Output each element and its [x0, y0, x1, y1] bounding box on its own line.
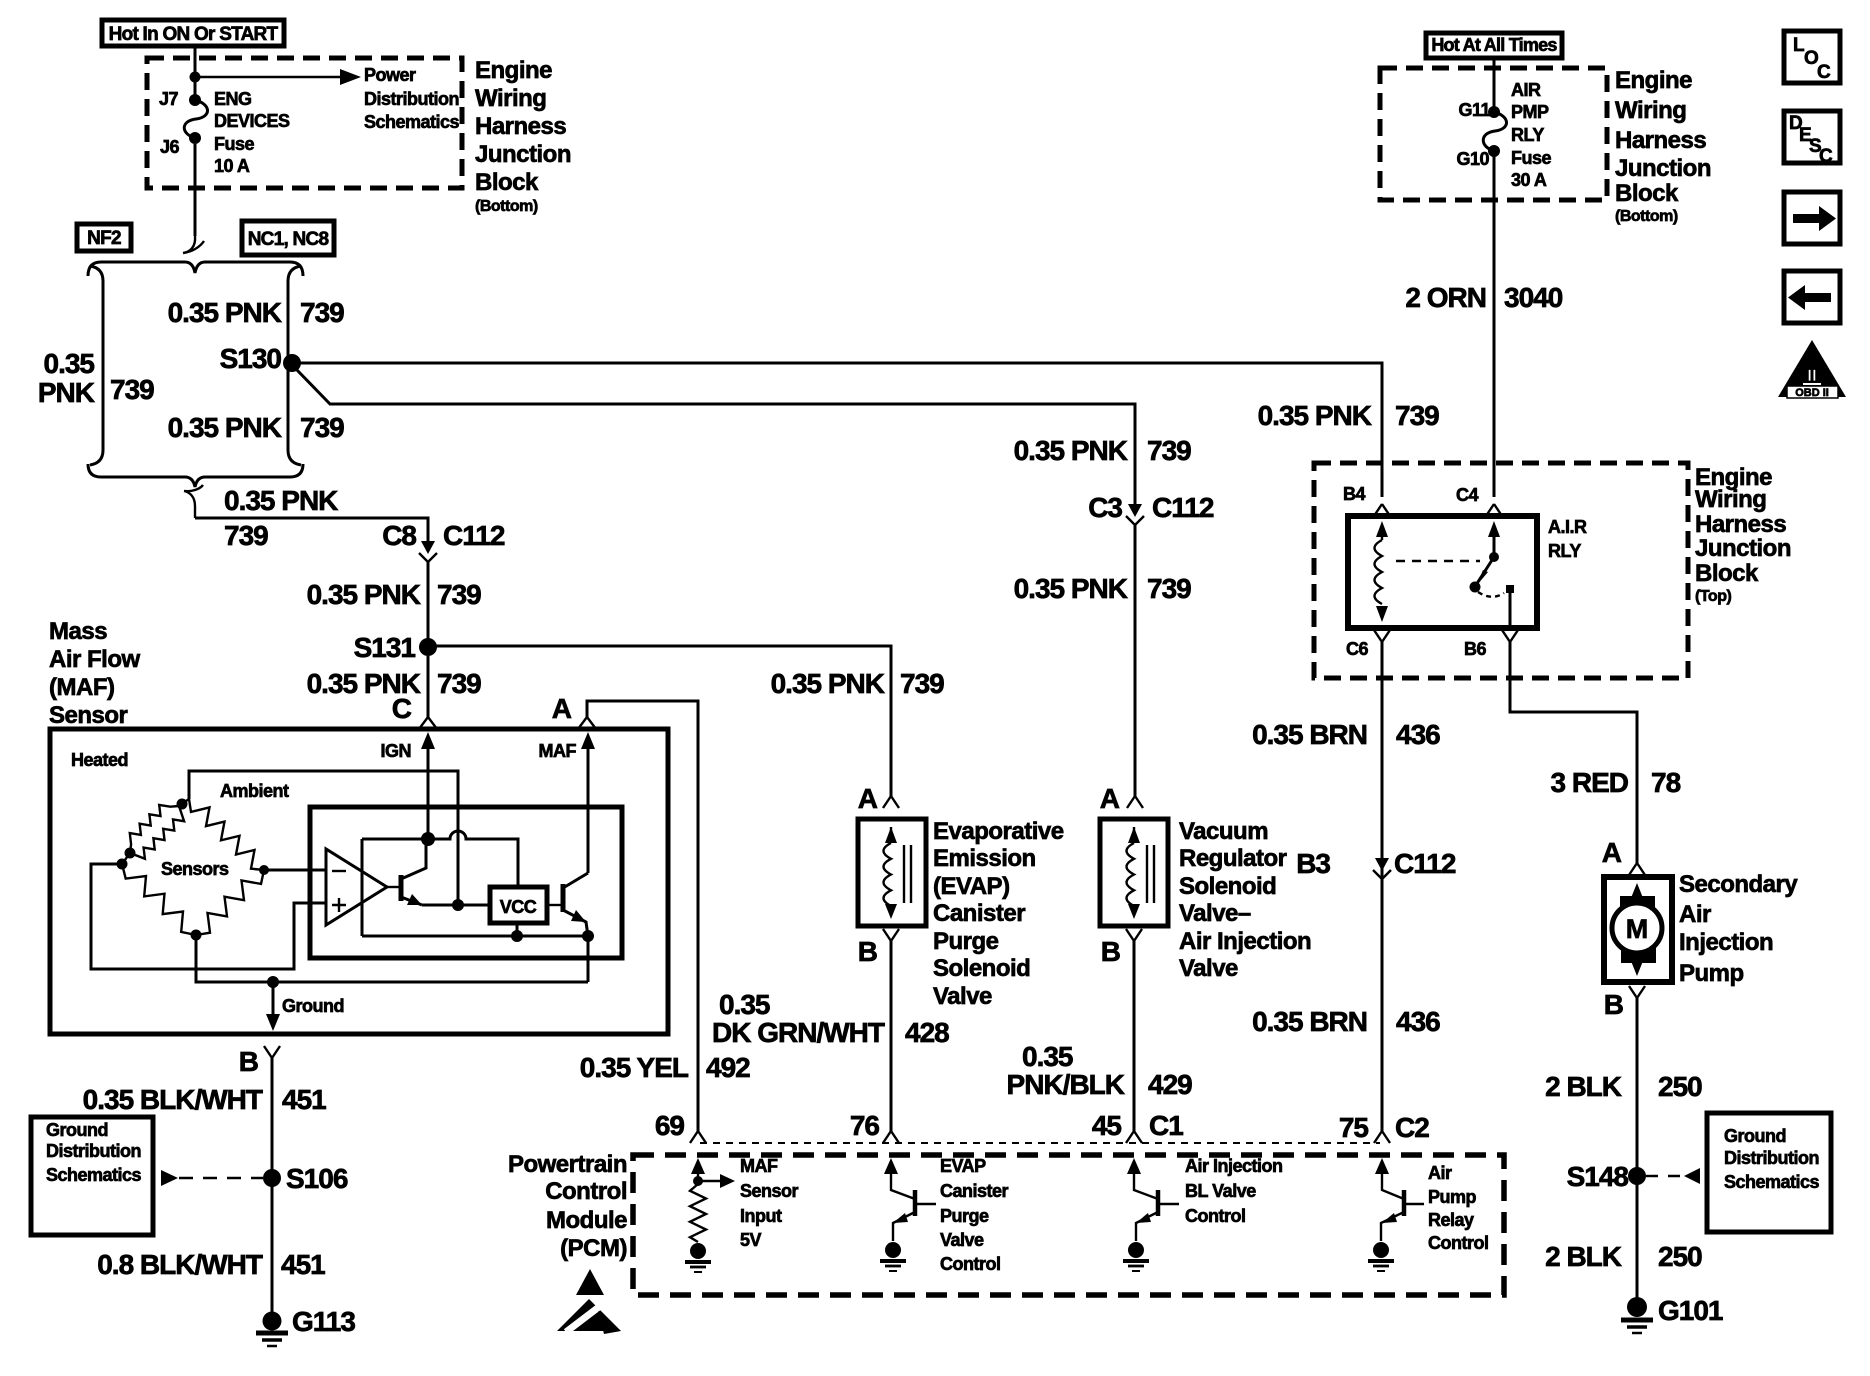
- wire arrow to Power Distribution Schematics: [195, 69, 361, 85]
- component label Mass Air Flow (MAF) Sensor: [49, 618, 140, 729]
- label Air Pump Relay Control: [1428, 1163, 1488, 1253]
- feedback left drop wire: [361, 839, 364, 936]
- svg-text:Fuse: Fuse: [214, 134, 255, 154]
- node: bridge right vertex: [259, 865, 269, 875]
- bridge heated resistor pair upper-left (outer): [130, 799, 189, 853]
- svg-text:Distribution: Distribution: [1724, 1148, 1819, 1168]
- PCM internal ground (pin 75 circuit): [1368, 1242, 1394, 1271]
- svg-text:Emission: Emission: [933, 845, 1036, 872]
- label Engine Wiring Harness Junction Block (Top): [1695, 464, 1791, 605]
- net tag NF2: [77, 224, 131, 251]
- svg-text:C112: C112: [1152, 492, 1214, 523]
- svg-text:0.35: 0.35: [1022, 1041, 1073, 1072]
- svg-text:Valve: Valve: [940, 1230, 984, 1250]
- margin icon OBD II triangle: [1778, 340, 1846, 399]
- margin icon DESC: [1784, 111, 1840, 167]
- svg-text:45: 45: [1092, 1110, 1122, 1141]
- svg-text:OBD II: OBD II: [1795, 387, 1829, 399]
- svg-text:G10: G10: [1456, 149, 1489, 169]
- wire MAF pin B to G113 (451): [271, 1058, 274, 1312]
- wire label 0.35 PNK 739: [307, 579, 482, 610]
- svg-text:II: II: [1807, 366, 1816, 385]
- svg-text:0.35: 0.35: [719, 989, 770, 1020]
- svg-text:Air Flow: Air Flow: [49, 646, 140, 673]
- svg-text:Sensors: Sensors: [161, 859, 229, 879]
- pin A of secondary air injection pump: [1602, 837, 1645, 875]
- svg-text:Engine: Engine: [475, 57, 552, 84]
- svg-text:B: B: [858, 936, 877, 967]
- svg-text:75: 75: [1339, 1112, 1369, 1143]
- bundle bracket left: [90, 266, 103, 465]
- svg-text:DK GRN/WHT: DK GRN/WHT: [712, 1017, 885, 1048]
- svg-text:S148: S148: [1567, 1161, 1629, 1192]
- svg-text:0.8 BLK/WHT: 0.8 BLK/WHT: [97, 1249, 263, 1280]
- svg-text:30 A: 30 A: [1511, 170, 1547, 190]
- pin 75 C2 label: [1339, 1112, 1429, 1143]
- svg-text:Junction: Junction: [1615, 155, 1711, 182]
- component label Powertrain Control Module (PCM): [508, 1151, 627, 1262]
- wire MAF pin A to PCM pin 69 (0.35 YEL 492): [587, 701, 698, 1131]
- wire from J6 down to bundle hook: [194, 144, 197, 236]
- ground G101: [1621, 1295, 1723, 1333]
- svg-text:A: A: [1602, 837, 1622, 868]
- svg-text:(Bottom): (Bottom): [1615, 208, 1678, 225]
- svg-text:429: 429: [1148, 1069, 1192, 1100]
- svg-text:739: 739: [1147, 435, 1191, 466]
- svg-text:Secondary: Secondary: [1679, 871, 1798, 898]
- svg-text:Control: Control: [545, 1178, 627, 1205]
- svg-text:C2: C2: [1395, 1112, 1429, 1143]
- svg-text:Harness: Harness: [1615, 127, 1706, 154]
- svg-text:B: B: [239, 1046, 258, 1077]
- svg-text:S130: S130: [220, 343, 282, 374]
- svg-text:Engine: Engine: [1615, 67, 1692, 94]
- svg-text:Canister: Canister: [933, 900, 1025, 927]
- wire vacuum pin B to PCM pin 45 (429): [1133, 941, 1136, 1131]
- node: bridge heated mid junction: [125, 848, 136, 859]
- component label Secondary Air Injection Pump: [1679, 871, 1798, 987]
- svg-text:C4: C4: [1456, 485, 1478, 505]
- wire pump pin B to G101 (2 BLK 250): [1636, 998, 1639, 1298]
- svg-text:C8: C8: [382, 520, 416, 551]
- node J6: [160, 132, 201, 157]
- svg-text:NC1, NC8: NC1, NC8: [248, 229, 329, 250]
- wire label 0.35 PNK/BLK 429: [1007, 1041, 1193, 1100]
- svg-text:739: 739: [300, 297, 344, 328]
- svg-text:Hot At All Times: Hot At All Times: [1431, 35, 1557, 55]
- svg-text:PMP: PMP: [1511, 102, 1549, 122]
- wire S130 to A.I.R relay B4: [292, 363, 1382, 497]
- svg-text:0.35 BLK/WHT: 0.35 BLK/WHT: [83, 1084, 263, 1115]
- node tap dot: [190, 72, 201, 83]
- svg-text:C: C: [1819, 146, 1833, 167]
- svg-text:C112: C112: [443, 520, 505, 551]
- svg-text:A: A: [858, 783, 878, 814]
- label Engine Wiring Harness Junction Block (Bottom) right: [1615, 67, 1711, 225]
- svg-text:PNK/BLK: PNK/BLK: [1007, 1069, 1125, 1100]
- bundle bracket right: [288, 266, 301, 465]
- svg-text:Ground: Ground: [282, 996, 344, 1016]
- svg-text:Fuse: Fuse: [1511, 148, 1552, 168]
- svg-text:G11: G11: [1458, 100, 1490, 120]
- fuse value label ENG DEVICES Fuse 10 A: [214, 89, 290, 176]
- label EVAP Canister Purge Valve Control: [940, 1156, 1009, 1274]
- svg-text:0.35 BRN: 0.35 BRN: [1252, 1006, 1367, 1037]
- svg-text:Air: Air: [1679, 901, 1711, 928]
- node: bridge bottom vertex: [191, 930, 202, 941]
- svg-text:10 A: 10 A: [214, 156, 250, 176]
- svg-text:0.35 PNK: 0.35 PNK: [1014, 573, 1128, 604]
- transistor Q2: [547, 873, 588, 936]
- svg-text:0.35 PNK: 0.35 PNK: [224, 485, 338, 516]
- svg-text:Evaporative: Evaporative: [933, 818, 1064, 845]
- wire S130 to connector C3 (vacuum regulator branch): [296, 369, 1135, 504]
- pin 69 label: [655, 1110, 706, 1143]
- svg-text:C: C: [392, 693, 412, 724]
- svg-text:250: 250: [1658, 1241, 1702, 1272]
- svg-text:Junction: Junction: [1695, 535, 1791, 562]
- node: bridge top vertex: [177, 799, 188, 810]
- svg-text:VCC: VCC: [500, 897, 537, 917]
- svg-text:Junction: Junction: [475, 141, 571, 168]
- wire Hot At All Times to G11: [1493, 58, 1496, 112]
- wire hook below brace: [184, 485, 203, 518]
- margin icon forward arrow: [1784, 192, 1840, 244]
- svg-text:Regulator: Regulator: [1179, 845, 1287, 872]
- svg-text:Purge: Purge: [940, 1206, 989, 1226]
- bridge resistor lower-left: [122, 864, 196, 935]
- svg-text:Solenoid: Solenoid: [933, 955, 1030, 982]
- svg-text:Valve–: Valve–: [1179, 900, 1251, 927]
- ESD sensitivity symbol: [557, 1269, 621, 1334]
- svg-text:Harness: Harness: [475, 113, 566, 140]
- label MAF Sensor Input 5V: [740, 1156, 799, 1250]
- svg-text:428: 428: [905, 1017, 949, 1048]
- ground G113: [256, 1306, 355, 1346]
- pin 76 label: [850, 1110, 899, 1143]
- svg-text:J7: J7: [159, 89, 179, 109]
- pin C6 of A.I.R relay: [1346, 630, 1390, 659]
- svg-text:739: 739: [437, 579, 481, 610]
- fuse F2 AIR PMP RLY 30A: [1483, 112, 1506, 151]
- svg-text:Pump: Pump: [1428, 1187, 1477, 1207]
- pin 45 C1 label: [1092, 1110, 1183, 1143]
- svg-text:0.35 YEL: 0.35 YEL: [580, 1052, 689, 1083]
- wire label 0.35 PNK 739 (upper run): [1014, 435, 1192, 466]
- reference box Ground Distribution Schematics (left): [31, 1117, 153, 1235]
- node: ground junction dot: [267, 976, 279, 988]
- svg-text:Mass: Mass: [49, 618, 107, 645]
- svg-text:69: 69: [655, 1110, 685, 1141]
- svg-text:(MAF): (MAF): [49, 674, 114, 701]
- svg-text:B6: B6: [1464, 639, 1486, 659]
- svg-text:451: 451: [281, 1249, 325, 1280]
- wire label 0.35 BLK/WHT 451: [83, 1084, 327, 1115]
- connector boundary fine dashed line: [700, 1142, 1380, 1144]
- margin icon back arrow: [1784, 271, 1840, 323]
- pin B of EVAP solenoid: [858, 929, 899, 967]
- PCM internal: transistor Q3 EVAP driver: [884, 1158, 936, 1241]
- svg-text:RLY: RLY: [1511, 125, 1544, 145]
- wire relay C6 to PCM pin 75 (436): [1381, 642, 1384, 1131]
- svg-text:C3: C3: [1088, 492, 1122, 523]
- svg-text:739: 739: [110, 374, 154, 405]
- component label Vacuum Regulator Solenoid Valve Air Injection Valve: [1179, 818, 1311, 982]
- PCM internal ground (pin 76 circuit): [880, 1242, 906, 1271]
- node: VCC ground dot: [511, 930, 523, 942]
- wire label 2 BLK 250 (lower): [1545, 1241, 1702, 1272]
- pin B of vacuum regulator solenoid: [1101, 929, 1142, 967]
- wire bridge bottom vertex to ground node: [196, 935, 588, 982]
- label Power Distribution Schematics: [364, 65, 460, 132]
- MAF inner amplifier box: [310, 807, 622, 958]
- svg-text:739: 739: [300, 412, 344, 443]
- wire S131 to EVAP solenoid pin A: [428, 646, 891, 796]
- pin A of EVAP solenoid: [858, 783, 899, 814]
- solenoid L1 EVAP canister purge valve: [858, 819, 926, 926]
- svg-text:Block: Block: [1615, 180, 1679, 207]
- svg-text:Air Injection: Air Injection: [1185, 1156, 1283, 1176]
- fuse F1 ENG DEVICES 10A: [184, 100, 207, 138]
- junction block J1 dashed boundary (Engine Wiring Harness Junction Block Bottom): [147, 58, 462, 188]
- wire 739 run to connector C8: [195, 518, 428, 541]
- wire S131 to MAF pin C: [427, 656, 430, 717]
- svg-text:MAF: MAF: [539, 741, 577, 761]
- svg-text:0.35 PNK: 0.35 PNK: [168, 297, 282, 328]
- svg-text:C112: C112: [1394, 848, 1456, 879]
- PCM internal: transistor Q5 air pump relay driver: [1375, 1158, 1424, 1241]
- svg-text:Canister: Canister: [940, 1181, 1009, 1201]
- svg-text:RLY: RLY: [1548, 541, 1581, 561]
- svg-text:Block: Block: [1695, 560, 1759, 587]
- svg-text:451: 451: [282, 1084, 326, 1115]
- svg-text:Harness: Harness: [1695, 511, 1786, 538]
- relay switch: [1470, 521, 1515, 628]
- svg-text:76: 76: [850, 1110, 880, 1141]
- svg-text:Power: Power: [364, 65, 416, 85]
- svg-text:Pump: Pump: [1679, 960, 1744, 987]
- svg-text:C1: C1: [1149, 1110, 1183, 1141]
- svg-text:5V: 5V: [740, 1230, 762, 1250]
- wire label 0.35 PNK / 739: [224, 485, 338, 551]
- power feed label box "Hot At All Times": [1426, 33, 1562, 58]
- svg-text:0.35 PNK: 0.35 PNK: [168, 412, 282, 443]
- splice S131: [354, 632, 437, 663]
- relay coil: [1375, 521, 1389, 622]
- MAF sensor outer box: [50, 729, 668, 1034]
- pin B4 of A.I.R relay: [1343, 484, 1390, 516]
- svg-text:A.I.R: A.I.R: [1548, 517, 1587, 537]
- wire EVAP pin B to PCM pin 76 (428): [890, 941, 893, 1131]
- svg-text:Input: Input: [740, 1206, 782, 1226]
- svg-text:Ground: Ground: [1724, 1126, 1786, 1146]
- svg-text:436: 436: [1396, 1006, 1440, 1037]
- splice S148: [1567, 1161, 1646, 1192]
- pin B of MAF sensor: [239, 1046, 280, 1077]
- svg-text:Ambient: Ambient: [220, 781, 289, 801]
- svg-text:(Top): (Top): [1695, 588, 1731, 605]
- svg-text:436: 436: [1396, 719, 1440, 750]
- svg-text:BL Valve: BL Valve: [1185, 1181, 1256, 1201]
- wire label 3 RED 78: [1551, 767, 1681, 798]
- svg-text:MAF: MAF: [740, 1156, 778, 1176]
- motor M1 secondary air injection pump: [1604, 877, 1672, 982]
- svg-text:DEVICES: DEVICES: [214, 111, 290, 131]
- PCM internal ground (pin 69 circuit): [685, 1243, 711, 1272]
- wire label 2 BLK 250 (upper): [1545, 1071, 1702, 1102]
- svg-text:A: A: [1100, 783, 1120, 814]
- svg-text:739: 739: [437, 668, 481, 699]
- wire label 0.35 PNK 739 (pin C): [307, 668, 482, 699]
- relay name label A.I.R RLY: [1548, 517, 1587, 561]
- svg-text:2 BLK: 2 BLK: [1545, 1241, 1622, 1272]
- relay K1 A.I.R RLY box: [1348, 516, 1537, 628]
- svg-text:Sensor: Sensor: [740, 1181, 799, 1201]
- svg-text:(Bottom): (Bottom): [475, 198, 538, 215]
- wire label 0.35 PNK 739 (upper): [168, 297, 345, 328]
- transistor Q1: [387, 839, 426, 905]
- svg-text:739: 739: [900, 668, 944, 699]
- wire label 0.35 PNK 739 (EVAP feed): [771, 668, 945, 699]
- svg-text:G101: G101: [1658, 1295, 1723, 1326]
- svg-text:Schematics: Schematics: [46, 1165, 142, 1185]
- wire G10 to relay C4 (2 ORN 3040): [1493, 151, 1496, 497]
- IGN input wire with arrow: [421, 732, 435, 839]
- ground arrow to case: [266, 982, 280, 1031]
- svg-text:2 ORN: 2 ORN: [1405, 282, 1486, 313]
- svg-text:3 RED: 3 RED: [1551, 767, 1629, 798]
- svg-text:C: C: [1817, 62, 1831, 83]
- wire label 0.8 BLK/WHT 451: [97, 1249, 325, 1280]
- connector C3 / C112: [1088, 492, 1214, 525]
- label Engine Wiring Harness Junction Block (Bottom) left: [475, 57, 571, 215]
- svg-text:Vacuum: Vacuum: [1179, 818, 1268, 845]
- svg-text:O: O: [1804, 48, 1818, 69]
- svg-text:739: 739: [224, 520, 268, 551]
- node: bridge left vertex: [117, 859, 128, 870]
- op-amp U1: [326, 849, 387, 925]
- svg-text:0.35 BRN: 0.35 BRN: [1252, 719, 1367, 750]
- svg-text:739: 739: [1147, 573, 1191, 604]
- svg-text:492: 492: [706, 1052, 750, 1083]
- svg-text:Wiring: Wiring: [1615, 97, 1686, 124]
- svg-text:3040: 3040: [1504, 282, 1563, 313]
- svg-text:NF2: NF2: [87, 228, 121, 249]
- svg-text:Valve: Valve: [1179, 955, 1238, 982]
- pin A of vacuum regulator solenoid: [1100, 783, 1143, 814]
- pin B6 of A.I.R relay: [1464, 630, 1518, 659]
- svg-text:B: B: [1101, 936, 1120, 967]
- svg-text:0.35 PNK: 0.35 PNK: [1014, 435, 1128, 466]
- ambient sensor top wire: [189, 771, 458, 905]
- wire label 0.35 BRN 436 (lower): [1252, 1006, 1440, 1037]
- relay coil-switch dashed link: [1396, 560, 1480, 562]
- svg-text:Control: Control: [940, 1254, 1000, 1274]
- net tag NC1, NC8: [242, 221, 334, 255]
- wire label 0.35 PNK 739 (left side): [38, 348, 154, 408]
- junction block J2 dashed boundary (Engine Wiring Harness Junction Block Bottom right): [1380, 68, 1607, 200]
- bundle brace top: [88, 262, 303, 276]
- wire from Hot In ON to node J7: [194, 46, 197, 98]
- svg-text:Control: Control: [1428, 1233, 1488, 1253]
- svg-text:AIR: AIR: [1511, 80, 1541, 100]
- svg-text:Block: Block: [475, 169, 539, 196]
- svg-text:2 BLK: 2 BLK: [1545, 1071, 1622, 1102]
- svg-text:Ground: Ground: [46, 1120, 108, 1140]
- svg-text:Solenoid: Solenoid: [1179, 873, 1276, 900]
- svg-text:PNK: PNK: [38, 377, 95, 408]
- bridge resistor lower-right: [196, 870, 264, 935]
- svg-text:B3: B3: [1296, 848, 1330, 879]
- fuse value label AIR PMP RLY Fuse 30 A: [1511, 80, 1552, 190]
- node G10: [1456, 145, 1500, 169]
- power feed label box "Hot In ON Or START": [102, 20, 284, 46]
- connector C8 / C112: [382, 520, 505, 562]
- svg-text:Schematics: Schematics: [1724, 1172, 1820, 1192]
- svg-text:Purge: Purge: [933, 928, 999, 955]
- PCM dashed boundary box: [633, 1155, 1504, 1295]
- svg-text:B: B: [1604, 989, 1623, 1020]
- svg-text:(PCM): (PCM): [560, 1235, 627, 1262]
- margin icon LOC: [1784, 31, 1840, 83]
- pin C of MAF sensor: [392, 693, 437, 729]
- PCM internal ground (pin 45 circuit): [1123, 1242, 1149, 1271]
- svg-text:EVAP: EVAP: [940, 1156, 986, 1176]
- svg-text:Powertrain: Powertrain: [508, 1151, 627, 1178]
- svg-text:0.35 PNK: 0.35 PNK: [771, 668, 885, 699]
- svg-text:C6: C6: [1346, 639, 1368, 659]
- svg-text:IGN: IGN: [380, 741, 411, 761]
- wire from C8 to splice S131: [427, 562, 430, 646]
- dashed reference arrow from S148: [1646, 1168, 1700, 1184]
- wire Q2 emitter drop to ground rail: [587, 936, 590, 982]
- svg-text:B4: B4: [1343, 484, 1365, 504]
- pin C4 of A.I.R relay: [1456, 485, 1502, 516]
- svg-text:ENG: ENG: [214, 89, 252, 109]
- wire label 0.35 BRN 436 (upper): [1252, 719, 1440, 750]
- wire label 0.35 PNK 739 (to relay B4): [1258, 400, 1440, 431]
- svg-text:M: M: [1626, 914, 1649, 944]
- svg-text:S131: S131: [354, 632, 416, 663]
- svg-text:Distribution: Distribution: [364, 89, 459, 109]
- svg-text:Hot In ON Or START: Hot In ON Or START: [109, 24, 279, 45]
- PCM internal: transistor Q4 air injection BL valve driver: [1127, 1158, 1179, 1241]
- svg-text:Module: Module: [546, 1207, 627, 1234]
- svg-text:S106: S106: [286, 1163, 348, 1194]
- svg-text:0.35 PNK: 0.35 PNK: [1258, 400, 1372, 431]
- dashed reference arrow to S106: [161, 1170, 263, 1186]
- pin B of secondary air injection pump: [1604, 986, 1645, 1020]
- svg-text:Wiring: Wiring: [1695, 486, 1766, 513]
- reference box Ground Distribution Schematics (right): [1707, 1113, 1831, 1232]
- svg-text:0.35: 0.35: [44, 348, 95, 379]
- svg-text:(EVAP): (EVAP): [933, 873, 1010, 900]
- node: IGN junction dot: [421, 832, 435, 846]
- svg-text:Control: Control: [1185, 1206, 1245, 1226]
- svg-text:Schematics: Schematics: [364, 112, 460, 132]
- svg-text:Distribution: Distribution: [46, 1141, 141, 1161]
- wire C3 to vacuum regulator pin A (739): [1134, 525, 1137, 796]
- wire VCC ground lead: [516, 923, 519, 936]
- connector B3 / C112: [1296, 848, 1456, 879]
- svg-text:739: 739: [1395, 400, 1439, 431]
- bundle brace bottom: [88, 464, 303, 487]
- svg-text:G113: G113: [292, 1306, 355, 1337]
- svg-text:Relay: Relay: [1428, 1210, 1474, 1230]
- wire end hook: [183, 236, 204, 253]
- feedback rail wire with hop over ambient wire: [362, 831, 518, 887]
- svg-text:0.35 PNK: 0.35 PNK: [307, 579, 421, 610]
